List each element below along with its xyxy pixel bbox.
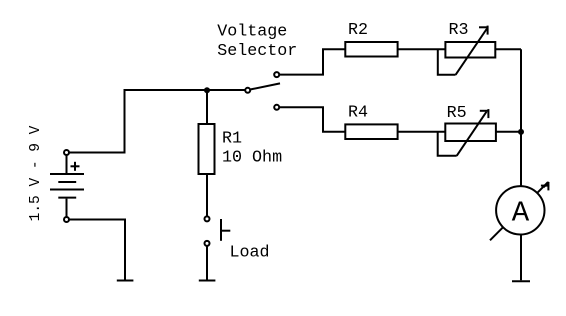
pushbutton S2 Load bottom contact: [205, 241, 210, 246]
wire R5 wiper branch: [438, 132, 457, 156]
ground battery: [117, 280, 134, 282]
pushbutton S2 Load top contact: [205, 216, 210, 221]
battery top terminal: [64, 150, 69, 155]
switch S1 blade: [251, 83, 280, 89]
wire R1 to load button: [206, 174, 208, 216]
switch S1 common pole: [245, 88, 250, 93]
switch S1 lower throw contact: [274, 105, 279, 110]
svg-text:Load: Load: [230, 244, 270, 263]
resistor R4: [345, 124, 397, 139]
svg-text:R2: R2: [348, 21, 368, 40]
rheostat R3 arrowhead: [479, 26, 488, 35]
wire right bus vertical: [520, 49, 522, 186]
rheostat R3 body: [445, 42, 495, 58]
battery plus sign: [71, 162, 80, 171]
pushbutton S2 actuator stub: [221, 230, 230, 232]
rheostat R5 arrowhead: [480, 109, 489, 118]
wire load button to ground: [206, 246, 208, 279]
node junction R5 and bus: [518, 129, 524, 135]
svg-text:1.5 V - 9 V: 1.5 V - 9 V: [28, 125, 44, 221]
svg-text:R3: R3: [449, 21, 469, 40]
node junction at R1 top: [204, 87, 210, 93]
rheostat R5 body: [445, 124, 496, 142]
wire R3 wiper branch: [438, 49, 456, 75]
ground ammeter: [512, 280, 530, 282]
wire R5 to right bus: [496, 131, 521, 133]
wire R3 to right bus: [495, 48, 521, 50]
svg-text:Selector: Selector: [217, 42, 297, 61]
svg-text:R4: R4: [348, 104, 368, 123]
wire lower throw to R4: [280, 107, 346, 131]
ammeter M1 arrowhead: [541, 182, 549, 190]
svg-text:Voltage: Voltage: [217, 23, 287, 42]
wire ammeter to ground: [520, 235, 522, 281]
svg-text:R1: R1: [222, 130, 242, 149]
wire R2 to R3: [398, 48, 446, 50]
wire battery- to ground: [70, 220, 126, 280]
svg-text:R5: R5: [447, 104, 467, 123]
pushbutton S2 actuator bar: [220, 219, 222, 241]
rheostat R3 wiper arrow line: [456, 29, 487, 75]
resistor R2: [345, 42, 397, 57]
battery bottom terminal: [64, 217, 69, 222]
resistor R1: [199, 124, 215, 174]
ammeter M1 body: [496, 186, 544, 234]
switch S1 upper throw contact: [274, 72, 279, 77]
wire battery+ to top bus: [70, 90, 245, 153]
ground load: [199, 280, 216, 282]
ammeter M1 adjust arrow line: [490, 182, 548, 240]
wire junction to R1: [206, 90, 208, 124]
rheostat R5 wiper arrow line: [457, 112, 487, 156]
wire upper throw to R2: [280, 49, 346, 74]
battery BT1 plates: [50, 155, 84, 217]
svg-text:10 Ohm: 10 Ohm: [222, 149, 282, 168]
svg-text:A: A: [512, 197, 530, 230]
wire R4 to R5: [398, 131, 446, 133]
